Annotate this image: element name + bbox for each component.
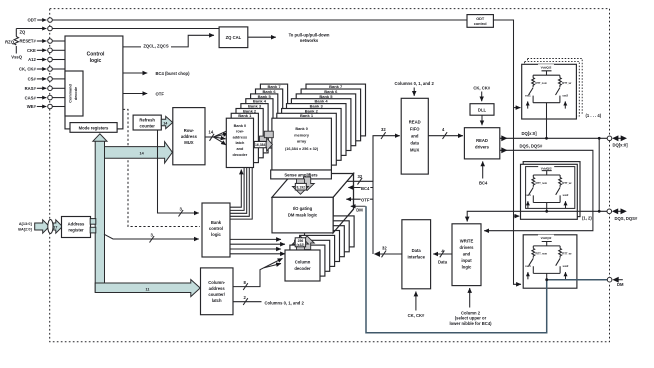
svg-text:ZQCL, ZQCS: ZQCL, ZQCS	[143, 44, 169, 49]
pad ODT	[48, 18, 53, 23]
wire 14 MUX to bank latches with fan	[205, 129, 232, 145]
svg-text:address: address	[181, 134, 198, 139]
svg-text:ZQ CAL: ZQ CAL	[226, 35, 242, 40]
svg-text:address: address	[233, 135, 248, 139]
svg-text:DQ[x:0]: DQ[x:0]	[522, 131, 538, 136]
stack Bank 7..1 memory arrays	[277, 84, 366, 165]
svg-text:VddQ/2: VddQ/2	[541, 236, 552, 240]
svg-text:control: control	[209, 226, 223, 231]
block Address register	[62, 217, 91, 238]
wire RAS#	[37, 87, 65, 89]
svg-text:latch: latch	[212, 298, 222, 303]
svg-text:latch: latch	[235, 141, 245, 145]
svg-text:interface: interface	[407, 255, 425, 260]
svg-text:(1 . . . 4): (1 . . . 4)	[586, 113, 602, 118]
svg-text:Bank 0: Bank 0	[295, 127, 307, 131]
wire CAS#	[37, 97, 65, 99]
wire A12	[37, 59, 65, 61]
svg-text:CAS#: CAS#	[25, 95, 37, 100]
wire 2 columns 0,1,and 2	[233, 298, 262, 305]
svg-text:counter/: counter/	[208, 292, 225, 297]
svg-text:DM mask logic: DM mask logic	[288, 212, 318, 217]
svg-text:Bank 0: Bank 0	[234, 124, 246, 128]
wire A DQ write path to WRITE drivers	[467, 137, 609, 222]
wire 8 column counter to column decoder fan	[233, 258, 283, 290]
svg-text:decode: decode	[74, 87, 78, 100]
svg-text:drivers: drivers	[460, 245, 475, 250]
svg-text:16,384: 16,384	[255, 143, 265, 147]
svg-text:and: and	[237, 147, 244, 151]
block Refresh counter	[133, 115, 161, 130]
svg-text:lower nibble for BC4): lower nibble for BC4)	[449, 321, 492, 326]
svg-text:WRITE: WRITE	[460, 239, 474, 244]
wire CS#	[37, 78, 65, 80]
svg-text:RZQ: RZQ	[5, 39, 15, 44]
wire RESET#	[37, 40, 65, 42]
wire dashed control to bank control	[123, 109, 200, 226]
wire 4 Data WRITE drivers to data interface	[433, 248, 452, 264]
svg-text:drivers: drivers	[475, 145, 490, 150]
bus arrow 17 into address register	[53, 220, 62, 233]
pad DM with input arrow	[607, 277, 624, 287]
svg-text:Column: Column	[295, 260, 311, 265]
svg-text:BA[2:0]: BA[2:0]	[18, 228, 32, 232]
block Data interface	[402, 220, 431, 289]
arrow grey 16,384 latch to array with echoes	[254, 131, 273, 151]
svg-text:Column-: Column-	[208, 280, 226, 285]
svg-text:DQS, DQS#: DQS, DQS#	[615, 216, 638, 221]
bus teal 11 to column-address counter	[95, 280, 200, 297]
svg-text:control: control	[474, 22, 487, 26]
wire CKE	[37, 49, 65, 51]
block READ FIFO and data MUX	[401, 98, 428, 174]
wire ODT input	[37, 19, 467, 21]
wire ZQCL, ZQCS	[123, 35, 214, 47]
svg-text:DM: DM	[356, 208, 363, 213]
block DLL	[470, 104, 494, 116]
svg-text:address: address	[209, 286, 226, 291]
block Column decoder	[285, 250, 320, 281]
svg-text:Bank 1: Bank 1	[300, 113, 314, 118]
svg-text:ODT: ODT	[476, 17, 485, 21]
svg-text:(x32): (x32)	[296, 243, 304, 247]
svg-text:VddQ/2: VddQ/2	[541, 66, 552, 70]
svg-text:Row-: Row-	[184, 128, 195, 133]
block WRITE drivers and input logic	[452, 224, 481, 286]
wire DQ line READ drivers to pad	[500, 135, 610, 141]
block I/O gating right face underlay	[333, 174, 353, 233]
wire ODT control to termination blocks	[493, 20, 521, 284]
svg-text:14: 14	[209, 130, 214, 135]
svg-text:Bank 1: Bank 1	[238, 113, 252, 118]
svg-text:Sense amplifiers: Sense amplifiers	[284, 173, 318, 178]
wire 4 READ FIFO to READ drivers	[428, 127, 463, 139]
chip boundary dashed border	[50, 9, 610, 342]
svg-text:WE#: WE#	[27, 104, 37, 109]
svg-text:Data: Data	[438, 259, 448, 264]
svg-text:MUX: MUX	[410, 148, 420, 153]
bus address input block arrow A[13:0] BA[2:0]	[35, 220, 50, 233]
svg-text:DQS, DQS#: DQS, DQS#	[520, 144, 543, 149]
label To pull-up/pull-down networks	[289, 32, 330, 43]
pad address bus lens	[48, 220, 53, 234]
svg-text:ZQ: ZQ	[20, 30, 27, 35]
svg-text:row-: row-	[236, 130, 245, 134]
block READ drivers	[464, 128, 499, 159]
wire 32 data interface to riser	[373, 136, 402, 258]
wire DM slate route to I/O gating	[366, 206, 607, 332]
wire columns into READ FIFO	[413, 88, 415, 96]
wire block3 center tap	[546, 273, 548, 279]
svg-text:32: 32	[381, 127, 386, 132]
svg-text:I/O gating: I/O gating	[293, 206, 313, 211]
wire OTF	[123, 93, 147, 95]
bus teal register stubs	[90, 219, 96, 233]
svg-text:networks: networks	[300, 38, 319, 43]
svg-text:CKE: CKE	[27, 48, 36, 53]
svg-text:Address: Address	[68, 221, 85, 226]
wire DLL to READ drivers	[481, 115, 483, 125]
wire CK to DLL	[481, 92, 483, 102]
svg-text:OTF: OTF	[361, 197, 370, 202]
block Sense amplifiers	[271, 170, 332, 179]
svg-text:(16,384 x 256 x 32): (16,384 x 256 x 32)	[285, 147, 319, 151]
bus teal 14 to row-address MUX	[105, 142, 173, 164]
svg-text:and: and	[411, 134, 419, 139]
svg-text:logic: logic	[211, 232, 221, 237]
wire BC4 (burst chop)	[123, 72, 147, 74]
wire DM into I/O gating	[351, 206, 366, 212]
block Command decode	[65, 71, 83, 116]
svg-text:(1, 2): (1, 2)	[582, 216, 592, 221]
wire to pull-up/pull-down networks	[248, 36, 276, 38]
svg-text:Data: Data	[412, 248, 422, 253]
svg-text:Control: Control	[87, 52, 105, 58]
wire DQS line READ drivers right	[484, 147, 593, 230]
svg-text:8,192: 8,192	[297, 185, 306, 189]
wire CK to data interface	[408, 292, 425, 318]
wire BC4 into READ drivers	[479, 161, 488, 185]
svg-text:CK, CK#: CK, CK#	[473, 86, 490, 91]
wires bank control to row latches (5 verticals)	[230, 168, 252, 220]
block Bank 0 memory array	[272, 118, 332, 170]
block Bank control logic	[202, 203, 230, 257]
svg-text:CS#: CS#	[28, 77, 37, 82]
stack Bank 7..1 row-address latches	[231, 84, 287, 163]
arrow grey 8,192 sense amps to I/O gating	[293, 177, 315, 194]
bus teal 14 refresh to MUX	[161, 116, 172, 128]
svg-text:BC4: BC4	[361, 186, 370, 191]
svg-text:BC4: BC4	[479, 181, 488, 186]
wire 32 I/O gating to READ FIFO riser	[347, 132, 400, 184]
block I/O gating DM mask logic (3D)	[272, 174, 354, 233]
svg-text:BC4 (burst chop): BC4 (burst chop)	[156, 71, 191, 76]
block ZQ CAL	[219, 27, 248, 48]
svg-text:Command: Command	[69, 84, 73, 103]
svg-text:A[13:0]: A[13:0]	[19, 222, 33, 226]
block Bank 0 row-address latch and decoder	[226, 118, 253, 167]
stack column decoders (7 behind)	[290, 216, 354, 276]
svg-text:register: register	[68, 227, 84, 232]
svg-text:memory: memory	[294, 133, 310, 137]
pad ZQ	[48, 26, 53, 31]
block Mode registers	[70, 123, 117, 133]
ODT termination block 3 (DM)	[523, 235, 577, 289]
svg-text:MUX: MUX	[184, 140, 194, 145]
svg-text:and: and	[463, 252, 471, 257]
ODT termination block 2 (DQS, 1,2)	[521, 162, 581, 220]
svg-text:(select upper or: (select upper or	[455, 316, 487, 321]
svg-text:READ: READ	[409, 120, 421, 125]
wire address register to bank control 3	[104, 234, 199, 239]
svg-text:ODT: ODT	[27, 18, 36, 23]
wire CK, CK#	[37, 68, 65, 70]
wire Column 2 into WRITE drivers	[449, 288, 492, 326]
label 3 with slash	[179, 207, 184, 217]
block Column-address counter/latch	[201, 268, 234, 315]
svg-text:Mode registers: Mode registers	[79, 126, 109, 131]
svg-text:data: data	[410, 141, 419, 146]
label ZQCL, ZQCS	[141, 43, 171, 49]
svg-text:DM: DM	[617, 282, 624, 287]
svg-text:array: array	[297, 140, 307, 144]
svg-text:Columns 0, 1, and 2: Columns 0, 1, and 2	[395, 81, 435, 86]
wire ZQ	[16, 29, 219, 54]
ODT termination block 1 (DQ, 1...4)	[522, 59, 583, 120]
wire block1 center tap to DQ line	[545, 103, 548, 140]
svg-text:VddQ/2: VddQ/2	[541, 166, 552, 170]
svg-text:Bank: Bank	[211, 220, 222, 225]
svg-text:32: 32	[382, 246, 387, 251]
svg-text:Column 2: Column 2	[461, 310, 481, 315]
svg-text:RAS#: RAS#	[25, 86, 37, 91]
svg-text:32: 32	[358, 174, 363, 179]
svg-text:DLL: DLL	[478, 108, 487, 113]
block ODT control	[467, 15, 493, 28]
wire WE#	[37, 106, 65, 108]
svg-text:Columns 0, 1, and 2: Columns 0, 1, and 2	[265, 300, 305, 305]
svg-text:FIFO: FIFO	[410, 127, 420, 132]
svg-text:READ: READ	[476, 138, 488, 143]
svg-text:decoder: decoder	[294, 266, 311, 271]
svg-text:RESET#: RESET#	[20, 39, 37, 44]
svg-text:A12: A12	[28, 57, 36, 62]
svg-text:counter: counter	[140, 123, 156, 128]
pad DQ with bidirectional arrows	[607, 135, 628, 147]
svg-text:CK, CK#: CK, CK#	[19, 67, 36, 72]
svg-text:input: input	[461, 258, 472, 263]
svg-text:11: 11	[146, 288, 150, 292]
svg-text:OTF: OTF	[156, 91, 165, 96]
resistor RZQ	[14, 37, 18, 46]
svg-text:logic: logic	[462, 265, 472, 270]
svg-text:logic: logic	[90, 58, 102, 64]
wire block2 center tap to DQS write line	[545, 203, 548, 213]
block Row-address MUX	[173, 108, 205, 165]
wire BC4 stub into I/O gating	[348, 184, 373, 191]
pad DQS with bidirectional arrows	[607, 208, 638, 220]
svg-text:17: 17	[53, 225, 57, 229]
svg-text:Refresh: Refresh	[139, 117, 155, 122]
svg-text:VssQ: VssQ	[11, 55, 22, 60]
block Control logic	[65, 36, 123, 129]
svg-text:CK, CK#: CK, CK#	[408, 313, 425, 318]
wire OTF stub into I/O gating	[346, 196, 373, 202]
arrow grey 256 (x32) column decoder to I/O gating	[293, 236, 315, 252]
bus teal vertical to mode registers and down	[93, 134, 107, 293]
svg-text:To pull-up/pull-down: To pull-up/pull-down	[289, 32, 330, 37]
wire refresh counter to bank control	[158, 130, 199, 213]
wires bank control to column decoders (4 lines)	[230, 239, 285, 253]
label 3 with slash	[150, 233, 155, 243]
svg-text:DQ[x:0]: DQ[x:0]	[613, 143, 629, 148]
svg-text:decoder: decoder	[233, 153, 248, 157]
